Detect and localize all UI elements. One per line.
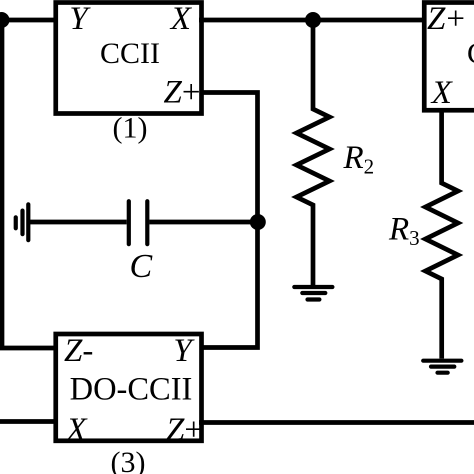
svg-text:Z+: Z+	[164, 75, 201, 111]
svg-text:CCII: CCII	[467, 37, 474, 70]
svg-text:(1): (1)	[113, 112, 148, 145]
svg-text:(3): (3)	[111, 446, 146, 474]
svg-text:R3: R3	[388, 212, 420, 251]
svg-text:C: C	[130, 248, 153, 285]
svg-text:R2: R2	[343, 140, 375, 179]
svg-text:Z+: Z+	[427, 1, 465, 37]
svg-text:Y: Y	[173, 333, 195, 369]
svg-text:Y: Y	[69, 1, 91, 37]
svg-text:DO-CCII: DO-CCII	[70, 372, 193, 408]
svg-text:Z-: Z-	[64, 333, 93, 369]
svg-text:X: X	[430, 75, 454, 111]
svg-text:X: X	[64, 412, 88, 448]
svg-text:Z+: Z+	[166, 412, 203, 448]
svg-text:CCII: CCII	[100, 37, 160, 70]
svg-text:X: X	[169, 1, 193, 37]
